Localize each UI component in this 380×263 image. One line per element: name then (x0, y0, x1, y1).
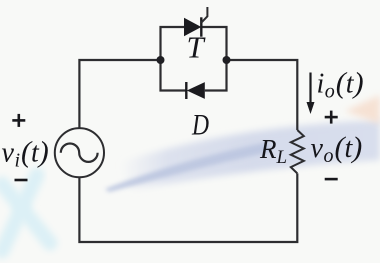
label + (load, top) (325, 111, 338, 124)
wire: load bottom, bottom return wire, up to source bottom (79, 173, 297, 242)
wire: right node to top-right corner down to load (227, 60, 298, 130)
current arrow i_o(t): head (307, 102, 315, 114)
current arrow i_o(t): shaft (309, 73, 311, 105)
label - (load, bottom) (325, 178, 338, 181)
node: left junction dot (157, 56, 165, 64)
svg-text:D: D (191, 109, 209, 142)
wire: left side of parallel box down to diode cathode (161, 60, 187, 91)
thyristor T: anode triangle (184, 18, 201, 36)
wire: diode anode to right box corner up to right node (205, 60, 227, 91)
resistor R_L zigzag (291, 130, 304, 173)
svg-text:vo(t): vo(t) (311, 131, 363, 167)
wire: left branch from source top to left node (79, 60, 160, 129)
label + (source, top left) (12, 114, 25, 127)
wire: thyristor cathode to right box corner down to right node (201, 27, 226, 60)
svg-text:T: T (187, 30, 207, 65)
thyristor T: cathode bar (200, 17, 202, 36)
diode D: triangle pointing left (187, 82, 205, 99)
node: right junction dot (223, 56, 231, 64)
thyristor T: gate lead (201, 7, 207, 23)
label - (source, bottom left) (15, 179, 28, 182)
diode D: cathode bar (185, 82, 187, 99)
wire: left side of parallel box up to thyristor anode (161, 27, 185, 60)
voltage source v_i(t) circle (55, 128, 104, 177)
voltage source sine wave (61, 144, 98, 162)
svg-text:io(t): io(t) (317, 67, 364, 103)
svg-text:vi(t): vi(t) (2, 136, 49, 172)
